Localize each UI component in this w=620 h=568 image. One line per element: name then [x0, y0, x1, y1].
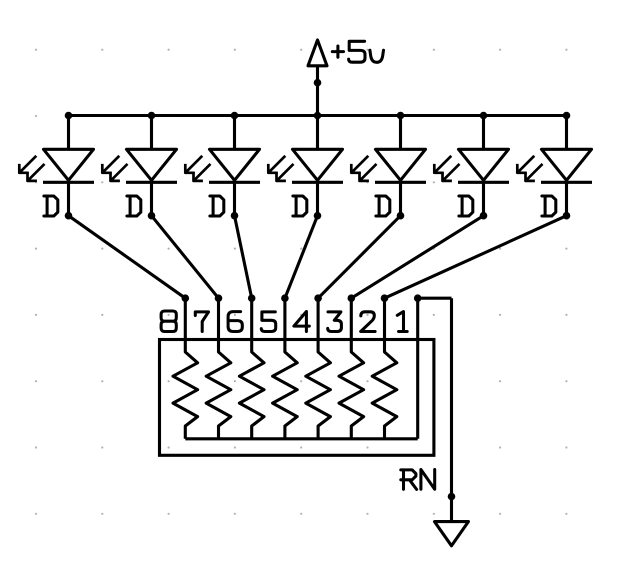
junction bus / LED D2 anode [148, 112, 156, 120]
label RN [401, 470, 435, 490]
resistor RN element 6 (pin 3) with pin lead [339, 298, 364, 439]
pin number 7 [195, 312, 208, 332]
junction RN pin 7 [215, 294, 223, 302]
junction on ground wire [448, 493, 456, 501]
junction RN pin 8 [182, 294, 190, 302]
LED D1 (anode wire, triangle, cathode bar, emission arrows, cathode junction) [19, 116, 94, 220]
junction RN pin 6 [248, 294, 256, 302]
label D (LED D5) [376, 196, 390, 216]
resistor RN element 7 (pin 2) with pin lead [372, 298, 397, 439]
pin number 6 [228, 312, 242, 332]
junction bus / LED D7 anode [563, 112, 571, 120]
wire LED D4 cathode to RN pin 5 [285, 216, 318, 299]
junction RN pin 1 [414, 294, 422, 302]
label D (LED D6) [459, 196, 473, 216]
pin number 1 [397, 312, 407, 332]
resistor RN element 1 (pin 8) with pin lead [173, 298, 198, 439]
label D (LED D4) [293, 196, 307, 216]
wire +5V stem [316, 66, 319, 116]
wire RN pin 1 to ground (horizontal) [418, 297, 452, 300]
junction bus / LED D5 anode [397, 112, 405, 120]
pin number 4 [294, 312, 309, 332]
wire LED D5 cathode to RN pin 4 [318, 216, 400, 299]
LED D3 (anode wire, triangle, cathode bar, emission arrows, cathode junction) [185, 116, 260, 220]
wire +5V horizontal bus [69, 114, 567, 117]
pin number 5 [261, 312, 275, 332]
junction bus / LED D6 anode [480, 112, 488, 120]
wire LED D6 cathode to RN pin 3 [351, 216, 483, 299]
label D (LED D3) [210, 196, 224, 216]
label D (LED D1) [44, 196, 58, 216]
LED D2 (anode wire, triangle, cathode bar, emission arrows, cathode junction) [102, 116, 177, 220]
LED D5 (anode wire, triangle, cathode bar, emission arrows, cathode junction) [351, 116, 426, 220]
power symbol +5V (VCC arrow) [308, 40, 327, 66]
LED D7 (anode wire, triangle, cathode bar, emission arrows, cathode junction) [517, 116, 592, 220]
wire LED D2 cathode to RN pin 7 [152, 216, 219, 299]
pin number 3 [328, 312, 342, 332]
wire RN pin 1 to ground (vertical) [450, 298, 453, 521]
resistor RN element 4 (pin 5) with pin lead [273, 298, 298, 439]
junction RN pin 3 [348, 294, 356, 302]
resistor RN element 3 (pin 6) with pin lead [239, 298, 264, 439]
junction RN pin 5 [281, 294, 289, 302]
wire LED D1 cathode to RN pin 8 [69, 216, 186, 299]
junction RN pin 2 [381, 294, 389, 302]
ground symbol [435, 522, 469, 546]
pin number 8 [161, 311, 176, 332]
resistor RN element 5 (pin 4) with pin lead [306, 298, 331, 439]
resistor RN element 2 (pin 7) with pin lead [206, 298, 231, 439]
pin number 2 [361, 312, 375, 332]
label D (LED D2) [127, 196, 141, 216]
wire RN internal common bus [185, 437, 417, 440]
junction bus / LED D3 anode [231, 112, 239, 120]
junction bus / LED D4 anode [314, 112, 322, 120]
label D (LED D7) [542, 196, 556, 216]
LED D6 (anode wire, triangle, cathode bar, emission arrows, cathode junction) [434, 116, 509, 220]
junction bus / LED D1 anode [65, 112, 73, 120]
label +5v [332, 41, 383, 62]
LED D4 (anode wire, triangle, cathode bar, emission arrows, cathode junction) [268, 116, 343, 220]
junction on +5V stem [314, 79, 322, 87]
wire LED D7 cathode to RN pin 2 [385, 216, 567, 299]
wire LED D3 cathode to RN pin 6 [235, 216, 252, 299]
junction RN pin 4 [314, 294, 322, 302]
wire RN pin 1 lead to common bus [416, 298, 419, 439]
resistor network RN body outline [160, 340, 434, 456]
